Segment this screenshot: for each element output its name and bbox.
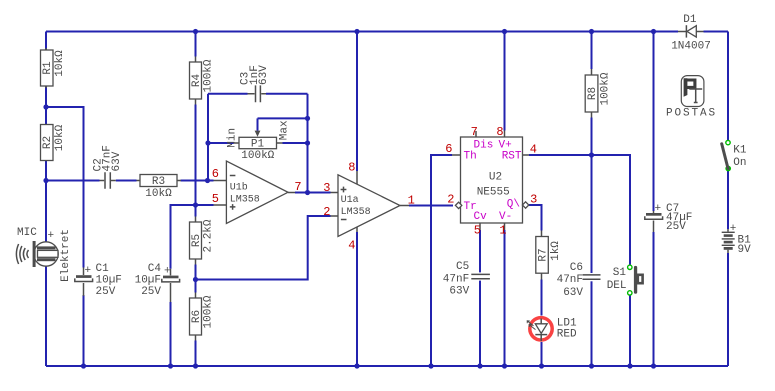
- svg-text:DEL: DEL: [607, 280, 627, 292]
- wire feedback column to U1b output: [307, 94, 309, 193]
- wire C4 bottom to ground: [170, 302, 172, 366]
- wire node A to C1 branch: [46, 107, 84, 268]
- resistor R8: [585, 69, 611, 118]
- wire left side R1 top: [45, 32, 47, 51]
- svg-text:LM358: LM358: [230, 195, 260, 206]
- capacitor C2: [92, 145, 122, 189]
- svg-text:U1b: U1b: [230, 181, 248, 193]
- wire bottom ground rail: [46, 365, 728, 367]
- capacitor C3: [240, 65, 270, 103]
- wire C6 to ground: [591, 281, 593, 366]
- svg-text:+: +: [655, 203, 662, 215]
- wire C7 bottom to ground: [653, 232, 655, 366]
- svg-text:9V: 9V: [738, 244, 752, 256]
- wire R4 top from rail: [195, 32, 197, 57]
- timer U2 NE555: [452, 131, 529, 231]
- resistor R4: [190, 57, 215, 105]
- potentiometer P1: [227, 120, 291, 162]
- electrolytic capacitor C4: [135, 263, 180, 302]
- wire V+ pin8 riser: [504, 32, 506, 131]
- svg-text:100kΩ: 100kΩ: [203, 295, 215, 328]
- svg-text:C6: C6: [570, 262, 583, 274]
- svg-text:R3: R3: [152, 176, 165, 188]
- svg-text:Th: Th: [464, 151, 477, 163]
- svg-text:100kΩ: 100kΩ: [600, 72, 612, 105]
- resistor R3: [137, 175, 182, 200]
- junction dot top rail V+: [502, 29, 507, 34]
- battery B1: [722, 223, 751, 256]
- svg-text:1: 1: [499, 224, 506, 238]
- junction dot U1b output node: [305, 190, 310, 195]
- electret microphone MIC: [16, 227, 72, 282]
- svg-text:63V: 63V: [258, 65, 270, 85]
- svg-text:+: +: [164, 266, 171, 278]
- junction dot node A R1 R2: [43, 104, 48, 109]
- wire LED to ground: [541, 342, 543, 366]
- svg-text:25V: 25V: [141, 286, 161, 298]
- svg-text:25V: 25V: [666, 221, 686, 233]
- electrolytic capacitor C1: [75, 263, 122, 298]
- wire V- pin1 to ground: [504, 230, 506, 366]
- switch K1: [722, 140, 747, 170]
- op-amp U1b: [214, 161, 296, 224]
- svg-text:8: 8: [348, 161, 355, 175]
- svg-text:R4: R4: [191, 74, 203, 88]
- svg-text:V-: V-: [499, 211, 512, 223]
- svg-text:63V: 63V: [111, 151, 123, 171]
- svg-text:5: 5: [474, 224, 481, 238]
- junction dot R5 R6 node: [193, 277, 198, 282]
- svg-text:63V: 63V: [563, 287, 583, 299]
- junction dot ground LED: [539, 363, 544, 368]
- junction dot P1 min node: [205, 140, 210, 145]
- wire R8 bottom to RST node and C6: [591, 118, 593, 274]
- LED LD1: [527, 317, 577, 341]
- wire C3 left column to pin6 node: [207, 94, 209, 181]
- junction dot ground C4: [168, 363, 173, 368]
- junction dot top rail C7: [651, 29, 656, 34]
- svg-text:K1: K1: [733, 144, 747, 156]
- svg-text:4: 4: [348, 238, 355, 252]
- wire C1 bottom to ground: [83, 295, 85, 366]
- svg-text:R6: R6: [191, 310, 203, 323]
- svg-text:NE555: NE555: [477, 186, 510, 198]
- wire R7 to LED: [541, 280, 543, 316]
- resistor R5: [190, 217, 215, 265]
- svg-text:1kΩ: 1kΩ: [550, 241, 562, 261]
- svg-text:25V: 25V: [96, 286, 116, 298]
- junction dot mic node: [43, 178, 48, 183]
- junction dot ground C1: [81, 363, 86, 368]
- resistor R7: [536, 231, 562, 280]
- wire P1 left terminal: [208, 142, 234, 144]
- junction dot top rail U1a pin8: [354, 29, 359, 34]
- wire Cv to C5: [479, 230, 481, 272]
- svg-text:10µF: 10µF: [135, 274, 161, 286]
- svg-text:10kΩ: 10kΩ: [145, 188, 172, 200]
- svg-text:RST: RST: [502, 151, 522, 163]
- svg-text:100kΩ: 100kΩ: [203, 59, 215, 92]
- wire R6 bottom to ground: [195, 341, 197, 367]
- svg-text:D1: D1: [683, 14, 697, 26]
- svg-text:7: 7: [471, 125, 478, 139]
- capacitor C6: [557, 262, 601, 299]
- wire R3 to pin6 node: [181, 180, 214, 182]
- wire U1a pin4 to ground: [356, 232, 358, 366]
- svg-text:4: 4: [530, 143, 537, 157]
- svg-text:8: 8: [496, 125, 503, 139]
- wire R5 bottom to R6 junction: [195, 265, 197, 293]
- wire S1 bottom to ground: [629, 295, 631, 366]
- junction dot ground C6: [589, 363, 594, 368]
- junction dot ground V-: [502, 363, 507, 368]
- svg-text:Elektret: Elektret: [60, 229, 72, 282]
- junction dot ground C5: [477, 363, 482, 368]
- svg-text:Cv: Cv: [474, 211, 488, 223]
- svg-text:3: 3: [530, 193, 537, 207]
- svg-text:10kΩ: 10kΩ: [54, 50, 66, 77]
- svg-text:10µF: 10µF: [96, 275, 122, 287]
- logo POSTAS: [666, 76, 717, 120]
- junction dot P1 max node: [305, 140, 310, 145]
- resistor R6: [190, 293, 215, 341]
- junction dot ground C7: [651, 363, 656, 368]
- svg-text:C1: C1: [96, 263, 110, 275]
- wire top rail right of D1: [704, 31, 729, 33]
- svg-text:MIC: MIC: [17, 227, 37, 239]
- svg-text:3: 3: [323, 181, 330, 195]
- svg-text:63V: 63V: [449, 286, 469, 298]
- svg-text:RED: RED: [557, 329, 577, 341]
- svg-text:R8: R8: [587, 87, 599, 100]
- svg-text:1N4007: 1N4007: [671, 40, 711, 52]
- wire U1a pin8 to rail: [356, 32, 358, 172]
- wire right side down to K1: [727, 32, 729, 141]
- junction dot wiper node: [305, 116, 310, 121]
- svg-text:+: +: [85, 265, 92, 277]
- wire P1 wiper tie: [258, 117, 308, 119]
- svg-text:1: 1: [408, 194, 415, 208]
- junction dot top rail R4: [193, 29, 198, 34]
- wire battery to bottom rail: [727, 253, 729, 366]
- svg-text:2.2kΩ: 2.2kΩ: [203, 219, 215, 252]
- svg-text:6: 6: [445, 142, 452, 156]
- svg-text:LM358: LM358: [341, 207, 371, 218]
- wire Q to R7: [529, 205, 542, 231]
- svg-text:100kΩ: 100kΩ: [241, 150, 274, 162]
- wire top supply rail: [46, 31, 678, 33]
- wire P1 right terminal: [283, 142, 308, 144]
- svg-text:U1a: U1a: [341, 195, 359, 206]
- resistor R2: [41, 124, 67, 160]
- svg-text:Max: Max: [278, 120, 290, 140]
- wire mic node to C2: [46, 180, 100, 182]
- wire K1 to battery: [727, 171, 729, 229]
- wire P1 wiper arrow drop: [257, 118, 259, 130]
- wire mic bottom to ground: [45, 266, 47, 366]
- svg-text:C5: C5: [456, 261, 469, 273]
- svg-text:S1: S1: [613, 267, 627, 279]
- wire C2 to R3: [116, 180, 137, 182]
- junction dot pin6 node: [205, 178, 210, 183]
- wire R1 bottom to R2 top: [45, 86, 47, 125]
- pushbutton S1: [607, 265, 643, 295]
- wire RST to S1: [529, 155, 630, 265]
- wire R5/R6 junction to U1a pin2: [196, 216, 331, 280]
- svg-text:+: +: [730, 223, 737, 235]
- svg-text:R1: R1: [42, 61, 54, 75]
- capacitor C5: [443, 261, 490, 298]
- svg-text:U2: U2: [489, 171, 502, 183]
- wire pin5 node to C4 branch: [171, 205, 196, 269]
- diode D1: [671, 14, 711, 52]
- op-amp U1a: [331, 171, 410, 237]
- svg-text:Min: Min: [227, 128, 239, 148]
- resistor R1: [41, 48, 67, 88]
- svg-text:+: +: [48, 230, 55, 242]
- wire U1a output to Tr: [409, 205, 453, 207]
- wire R8 top from rail: [591, 32, 593, 70]
- wire C3 left row: [208, 93, 248, 95]
- wire C5 to ground: [479, 281, 481, 366]
- svg-text:5: 5: [212, 192, 219, 206]
- junction dot ground R6: [193, 363, 198, 368]
- wire U1b output to U1a pin3: [295, 192, 331, 194]
- svg-text:R2: R2: [42, 136, 54, 149]
- junction dot ground U1a pin4: [354, 363, 359, 368]
- svg-text:6: 6: [212, 167, 219, 181]
- svg-text:47nF: 47nF: [557, 274, 583, 286]
- svg-text:10kΩ: 10kΩ: [54, 124, 66, 151]
- svg-text:On: On: [733, 157, 746, 169]
- svg-text:7: 7: [294, 180, 301, 194]
- junction dot ground S1: [627, 363, 632, 368]
- wire R2 bottom to mic top: [45, 161, 47, 243]
- svg-text:R7: R7: [537, 248, 549, 261]
- junction dot top rail R8: [589, 29, 594, 34]
- svg-text:C4: C4: [148, 263, 162, 275]
- wire pin5 node to U1b: [196, 204, 214, 206]
- svg-text:47nF: 47nF: [443, 274, 469, 286]
- junction dot pin5 node: [193, 202, 198, 207]
- wire R4 bottom down to R5: [195, 105, 197, 217]
- svg-text:Q\: Q\: [507, 199, 520, 211]
- svg-text:LD1: LD1: [557, 317, 577, 329]
- svg-text:P1: P1: [251, 139, 265, 151]
- svg-text:POSTAS: POSTAS: [666, 108, 717, 120]
- wire C3 right row to feedback column: [266, 93, 308, 95]
- wire Th to ground column: [431, 155, 452, 366]
- electrolytic capacitor C7: [645, 203, 693, 233]
- junction dot ground Th column: [428, 363, 433, 368]
- svg-text:2: 2: [323, 205, 330, 219]
- junction dot RST R8 node: [589, 152, 594, 157]
- wire C7 top from rail: [653, 32, 655, 212]
- svg-text:2: 2: [447, 193, 454, 207]
- svg-text:R5: R5: [191, 234, 203, 247]
